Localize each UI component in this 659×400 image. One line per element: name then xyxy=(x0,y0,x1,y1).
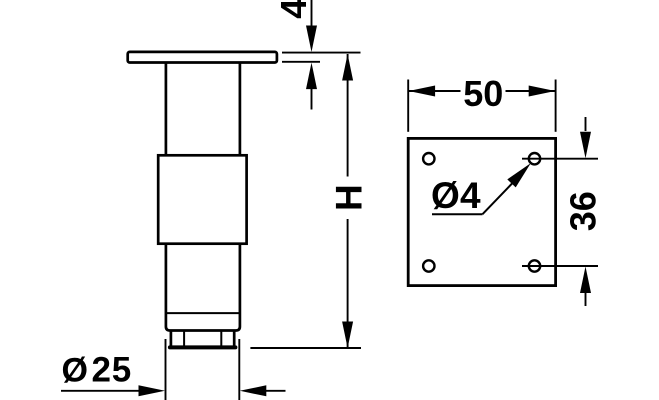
top mounting plate (side view) xyxy=(128,52,277,63)
svg-text:4: 4 xyxy=(460,175,481,216)
dimension H: dimension line xyxy=(347,54,349,348)
adjustable foot inner lines xyxy=(184,332,221,347)
dimension 4: extension line at plate top xyxy=(282,52,361,54)
dimension 36: bottom extension line xyxy=(522,265,598,267)
dimension 4: lower arrow (up) xyxy=(306,63,317,90)
wide sleeve block (side view) xyxy=(158,155,246,243)
svg-text:50: 50 xyxy=(463,73,503,114)
upper leg column (side view) xyxy=(166,63,240,155)
screw hole bottom-right xyxy=(529,260,540,271)
dimension Ø25: left extension line xyxy=(165,339,167,400)
dimension 4: lower leader line xyxy=(311,88,313,110)
lower column seam line xyxy=(166,312,240,314)
screw hole bottom-left xyxy=(423,260,434,271)
label Ø4: leader arrow xyxy=(507,163,531,187)
mounting plate (bottom view) square xyxy=(408,138,555,285)
svg-text:36: 36 xyxy=(563,191,604,231)
svg-text:Ø: Ø xyxy=(62,352,88,390)
dimension H: bottom extension line xyxy=(250,347,361,349)
svg-text:4: 4 xyxy=(273,0,314,19)
dimension 50: right arrow xyxy=(529,86,556,97)
screw hole top-right xyxy=(529,153,540,164)
dimension Ø25: right arrow (left) xyxy=(240,385,266,396)
dimension 4: upper arrow (down) xyxy=(306,26,317,53)
dimension 4: extension line at plate bottom xyxy=(282,61,320,63)
adjustable foot sides xyxy=(171,331,234,348)
label Ø4: underline xyxy=(432,213,483,215)
lower leg column (side view) xyxy=(166,244,240,331)
dimension 50: dimension line xyxy=(409,90,555,92)
dimension 36: upper leader line xyxy=(585,117,587,131)
label Ø4: leader line xyxy=(483,183,514,215)
screw hole top-left xyxy=(423,153,434,164)
dimension Ø25: right extension line xyxy=(238,339,240,400)
dimension 50: left extension line xyxy=(407,80,409,132)
dimension 36: lower leader line xyxy=(585,292,587,306)
dimension Ø25: left arrow (right) xyxy=(139,385,166,396)
dimension 50: right extension line xyxy=(555,80,557,132)
svg-text:H: H xyxy=(329,184,370,211)
adjustable foot base (thick) xyxy=(170,345,236,349)
dimension H: bottom arrow (down) xyxy=(342,322,353,349)
dimension 36: upper arrow (down) xyxy=(580,132,591,159)
dimension 36: top extension line xyxy=(522,158,598,160)
svg-text:Ø: Ø xyxy=(431,175,460,216)
dimension Ø25: right dimension line xyxy=(265,390,286,392)
dimension 50: left arrow xyxy=(409,86,436,97)
dimension Ø25: left dimension line xyxy=(61,390,140,392)
dimension H: top arrow (up) xyxy=(342,54,353,81)
dimension 4: upper leader line xyxy=(311,0,313,27)
dimension 36: lower arrow (up) xyxy=(580,267,591,294)
svg-text:25: 25 xyxy=(92,351,133,390)
